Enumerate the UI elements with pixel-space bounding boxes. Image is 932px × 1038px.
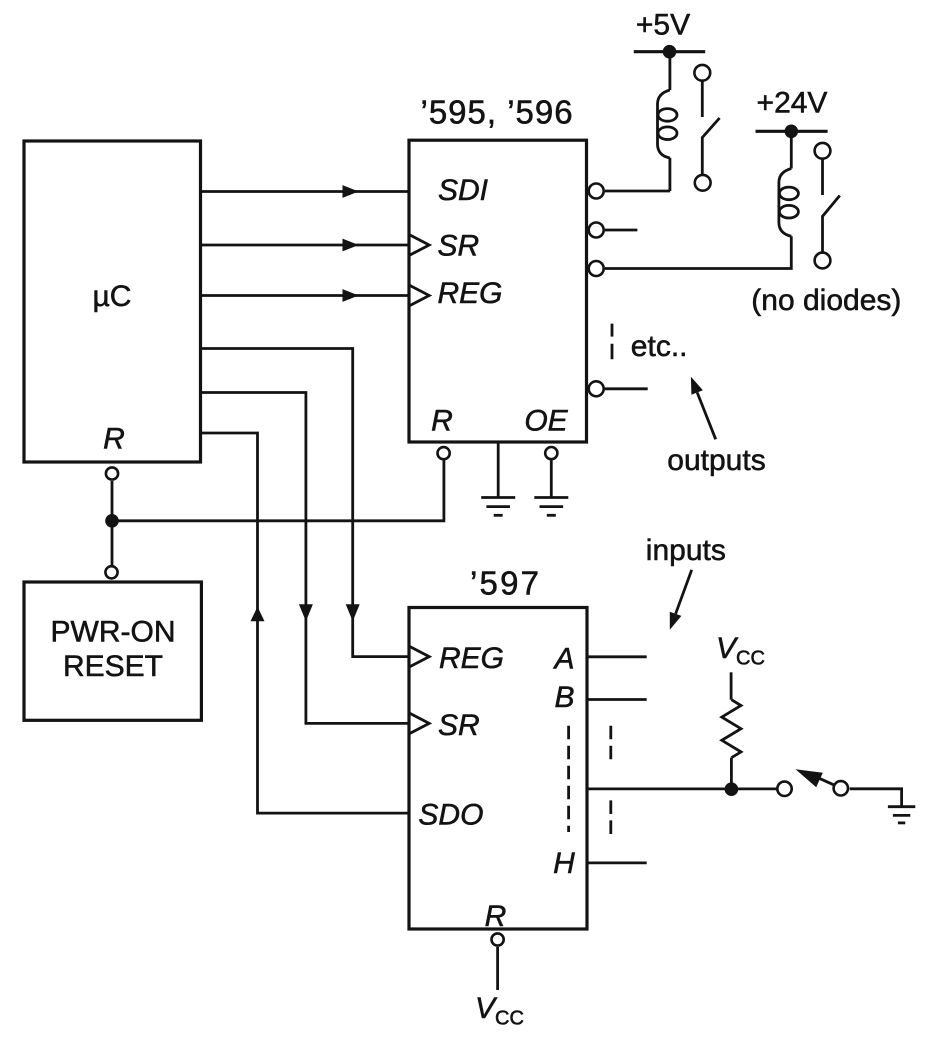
relay contact K1 bottom terminal <box>695 175 711 191</box>
arrowhead down on REG wire <box>346 604 360 621</box>
wire µC R pin to junction <box>111 481 114 517</box>
wire SDI µC to '595 <box>201 190 410 193</box>
microcontroller U1 box <box>24 141 201 462</box>
relay contact K1 blade <box>702 118 719 175</box>
ground symbol mid <box>481 498 515 516</box>
svg-text:R: R <box>103 423 125 456</box>
PWR-ON RESET box <box>24 582 201 720</box>
svg-text:REG: REG <box>439 642 504 675</box>
wire REG µC to '595 <box>201 294 410 297</box>
svg-text:(no diodes): (no diodes) <box>751 284 901 317</box>
wire junction to PWR-ON reset <box>111 521 114 566</box>
wire stub output 4 <box>605 387 648 390</box>
svg-text:B: B <box>554 681 574 714</box>
relay contact K1 wire top <box>701 81 704 117</box>
shift register '595 box <box>409 140 587 442</box>
svg-text:RESET: RESET <box>63 650 163 683</box>
pin circle PWR-ON output <box>105 566 117 578</box>
wire input B <box>587 698 647 701</box>
svg-text:’597: ’597 <box>470 565 541 602</box>
wire stub output 2 <box>605 229 637 232</box>
svg-text:SR: SR <box>438 709 480 742</box>
svg-text:outputs: outputs <box>667 444 765 477</box>
arrowhead up on SDO wire <box>251 607 265 622</box>
svg-text:SDI: SDI <box>438 174 488 207</box>
relay contact K2 top terminal <box>815 143 831 159</box>
arrowhead outputs <box>691 377 703 395</box>
wire R net to '595 R pin <box>112 460 444 521</box>
relay coil K1 <box>658 90 678 158</box>
svg-text:SR: SR <box>438 229 480 262</box>
pin circle '597 R <box>492 933 504 945</box>
relay contact K1 top terminal <box>694 65 710 81</box>
relay coil K2 <box>779 169 799 237</box>
dashed marks inside '597 <box>567 726 570 832</box>
svg-text:H: H <box>553 847 575 880</box>
wire µC to '597 REG <box>201 349 410 657</box>
svg-text:VCC: VCC <box>475 992 524 1030</box>
wire output 1 to relay coil K1 <box>605 190 670 193</box>
wire Vcc to resistor <box>730 672 733 699</box>
clock input triangle REG '597 <box>409 646 429 667</box>
shift register '597 box <box>409 608 587 930</box>
arrowhead SR wire <box>343 239 359 252</box>
wire SR µC to '595 <box>201 244 410 247</box>
svg-text:inputs: inputs <box>646 534 726 567</box>
pin circle '595 output 2 <box>589 223 604 238</box>
pin circle '595 OE <box>545 447 557 459</box>
+24V rail <box>756 130 828 133</box>
arrowhead inputs <box>670 612 682 630</box>
+5V rail <box>634 50 705 53</box>
clock input triangle REG '595 <box>409 285 429 306</box>
relay contact K2 blade <box>823 196 840 253</box>
junction dot pull-up <box>725 782 739 796</box>
pin circle '595 output 1 <box>589 184 604 199</box>
dashed marks outside '597 upper <box>609 726 612 760</box>
arrowhead down on SR wire <box>299 604 313 621</box>
svg-text:+24V: +24V <box>757 87 828 120</box>
wire '597 R to Vcc <box>496 947 499 990</box>
resistor pull-up <box>722 700 741 758</box>
pin circle '595 output 3 <box>589 261 604 276</box>
wire mid input to switch <box>587 788 777 791</box>
svg-text:A: A <box>552 643 574 676</box>
wire '595 mid bottom to ground <box>497 442 500 498</box>
wire output 3 to relay coil K2 <box>605 236 791 268</box>
svg-text:VCC: VCC <box>716 632 765 670</box>
switch S1 blade <box>819 778 835 785</box>
switch S1 right terminal <box>834 781 848 795</box>
arrow to outputs label <box>697 393 716 440</box>
clock input triangle SR '597 <box>409 713 429 734</box>
svg-text:R: R <box>431 405 453 438</box>
svg-text:µC: µC <box>93 280 132 313</box>
ground symbol right <box>888 807 915 823</box>
svg-text:OE: OE <box>524 405 568 438</box>
pin circle '595 R <box>438 447 450 459</box>
arrowhead SDI wire <box>343 185 359 198</box>
svg-text:SDO: SDO <box>418 799 483 832</box>
svg-text:’595, ’596: ’595, ’596 <box>421 94 574 131</box>
svg-text:+5V: +5V <box>636 9 690 42</box>
wire +24V to coil K2 <box>790 131 793 168</box>
switch S1 left terminal <box>777 782 791 796</box>
svg-text:PWR-ON: PWR-ON <box>51 615 176 648</box>
svg-text:etc..: etc.. <box>631 330 688 363</box>
dashed marks outside '597 lower <box>609 800 612 834</box>
wire +5V to coil K1 <box>669 52 672 90</box>
pin circle '595 output 4 <box>589 381 604 396</box>
junction dot +5V <box>663 45 677 59</box>
pin circle µC R <box>106 467 118 479</box>
arrow to inputs label <box>676 570 692 614</box>
svg-text:REG: REG <box>438 277 503 310</box>
wire µC to '597 SR <box>201 393 410 724</box>
wire coil K1 to output 1 <box>669 158 672 191</box>
ground symbol OE <box>534 498 568 516</box>
junction dot R net <box>105 514 119 528</box>
wire input H <box>587 862 647 865</box>
wire input A <box>587 655 647 658</box>
wire switch to ground <box>850 789 902 807</box>
clock input triangle SR '595 <box>409 235 429 256</box>
relay contact K2 bottom terminal <box>815 253 831 269</box>
dashed continuation marks '595 outputs <box>611 324 614 360</box>
arrowhead REG wire <box>343 289 359 302</box>
svg-text:R: R <box>485 900 507 933</box>
wire resistor to junction <box>730 758 733 790</box>
arrowhead switch blade <box>796 769 823 787</box>
relay contact K2 wire top <box>821 159 824 195</box>
wire '597 SDO to µC <box>201 433 410 813</box>
wire OE to ground <box>550 461 553 498</box>
junction dot +24V <box>785 125 799 139</box>
